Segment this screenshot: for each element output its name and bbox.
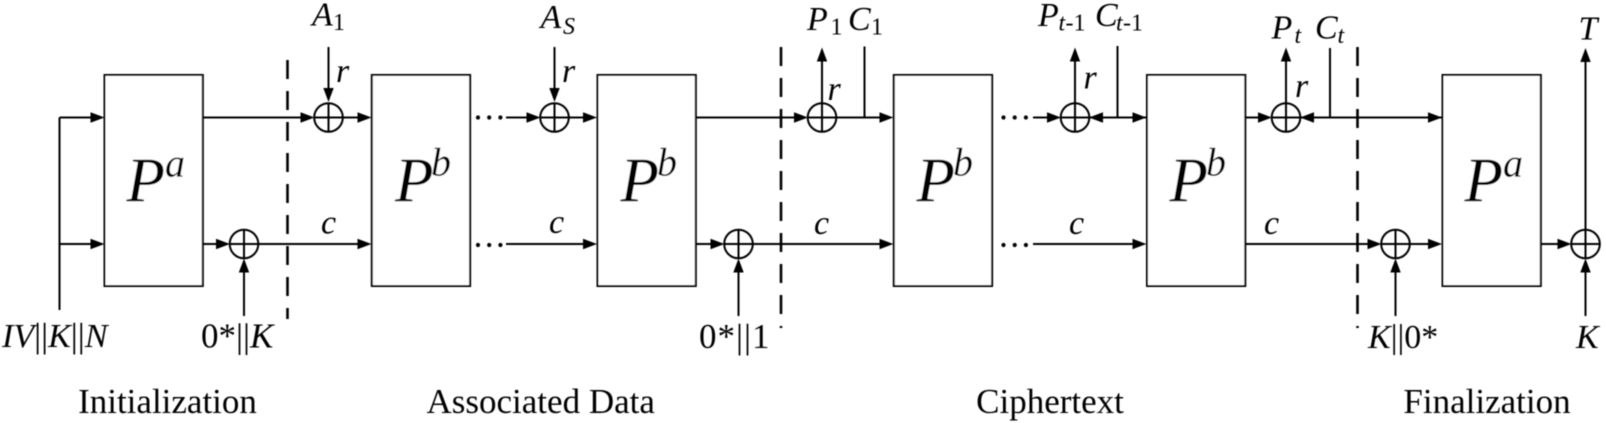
svg-text:b: b <box>953 140 973 185</box>
svg-text:K||0*: K||0* <box>1367 319 1438 356</box>
svg-text:b: b <box>431 140 451 185</box>
svg-text:C: C <box>1095 0 1118 34</box>
svg-text:P: P <box>1464 146 1503 216</box>
svg-text:c: c <box>814 205 829 242</box>
svg-text:C: C <box>848 1 871 38</box>
svg-text:P: P <box>1037 0 1059 34</box>
svg-text:P: P <box>1271 10 1293 47</box>
svg-text:P: P <box>1169 146 1208 216</box>
svg-text:A: A <box>310 0 333 34</box>
svg-text:-1: -1 <box>1066 11 1086 37</box>
svg-text:Associated Data: Associated Data <box>427 382 656 421</box>
svg-text:b: b <box>657 140 677 185</box>
svg-text:b: b <box>1206 140 1226 185</box>
svg-text:IV||K||N: IV||K||N <box>1 316 110 355</box>
svg-text:S: S <box>563 14 575 40</box>
svg-text:0*||K: 0*||K <box>201 317 275 356</box>
svg-text:c: c <box>1069 205 1084 242</box>
svg-text:1: 1 <box>333 10 345 36</box>
svg-text:r: r <box>1084 60 1098 97</box>
svg-text:T: T <box>1579 11 1600 48</box>
svg-text:P: P <box>916 146 955 216</box>
svg-text:1: 1 <box>831 15 843 41</box>
svg-text:0*||1: 0*||1 <box>699 317 771 356</box>
svg-text:r: r <box>828 71 842 108</box>
svg-text:P: P <box>806 1 828 38</box>
svg-text:P: P <box>620 146 659 216</box>
svg-text:Initialization: Initialization <box>78 382 257 421</box>
svg-text:Finalization: Finalization <box>1403 382 1570 421</box>
svg-text:c: c <box>549 204 564 241</box>
svg-text:r: r <box>336 53 350 90</box>
svg-text:a: a <box>165 141 185 186</box>
svg-text:A: A <box>539 0 562 36</box>
svg-text:a: a <box>1503 141 1523 186</box>
svg-text:c: c <box>321 205 336 242</box>
svg-text:1: 1 <box>871 15 883 41</box>
svg-text:-1: -1 <box>1123 11 1143 37</box>
svg-text:c: c <box>1264 205 1279 242</box>
svg-text:P: P <box>126 146 165 216</box>
svg-text:r: r <box>1295 68 1309 105</box>
svg-text:Ciphertext: Ciphertext <box>976 382 1124 421</box>
svg-text:K: K <box>1575 319 1601 356</box>
svg-text:C: C <box>1315 10 1338 47</box>
svg-text:r: r <box>562 53 576 90</box>
svg-text:P: P <box>394 146 433 216</box>
